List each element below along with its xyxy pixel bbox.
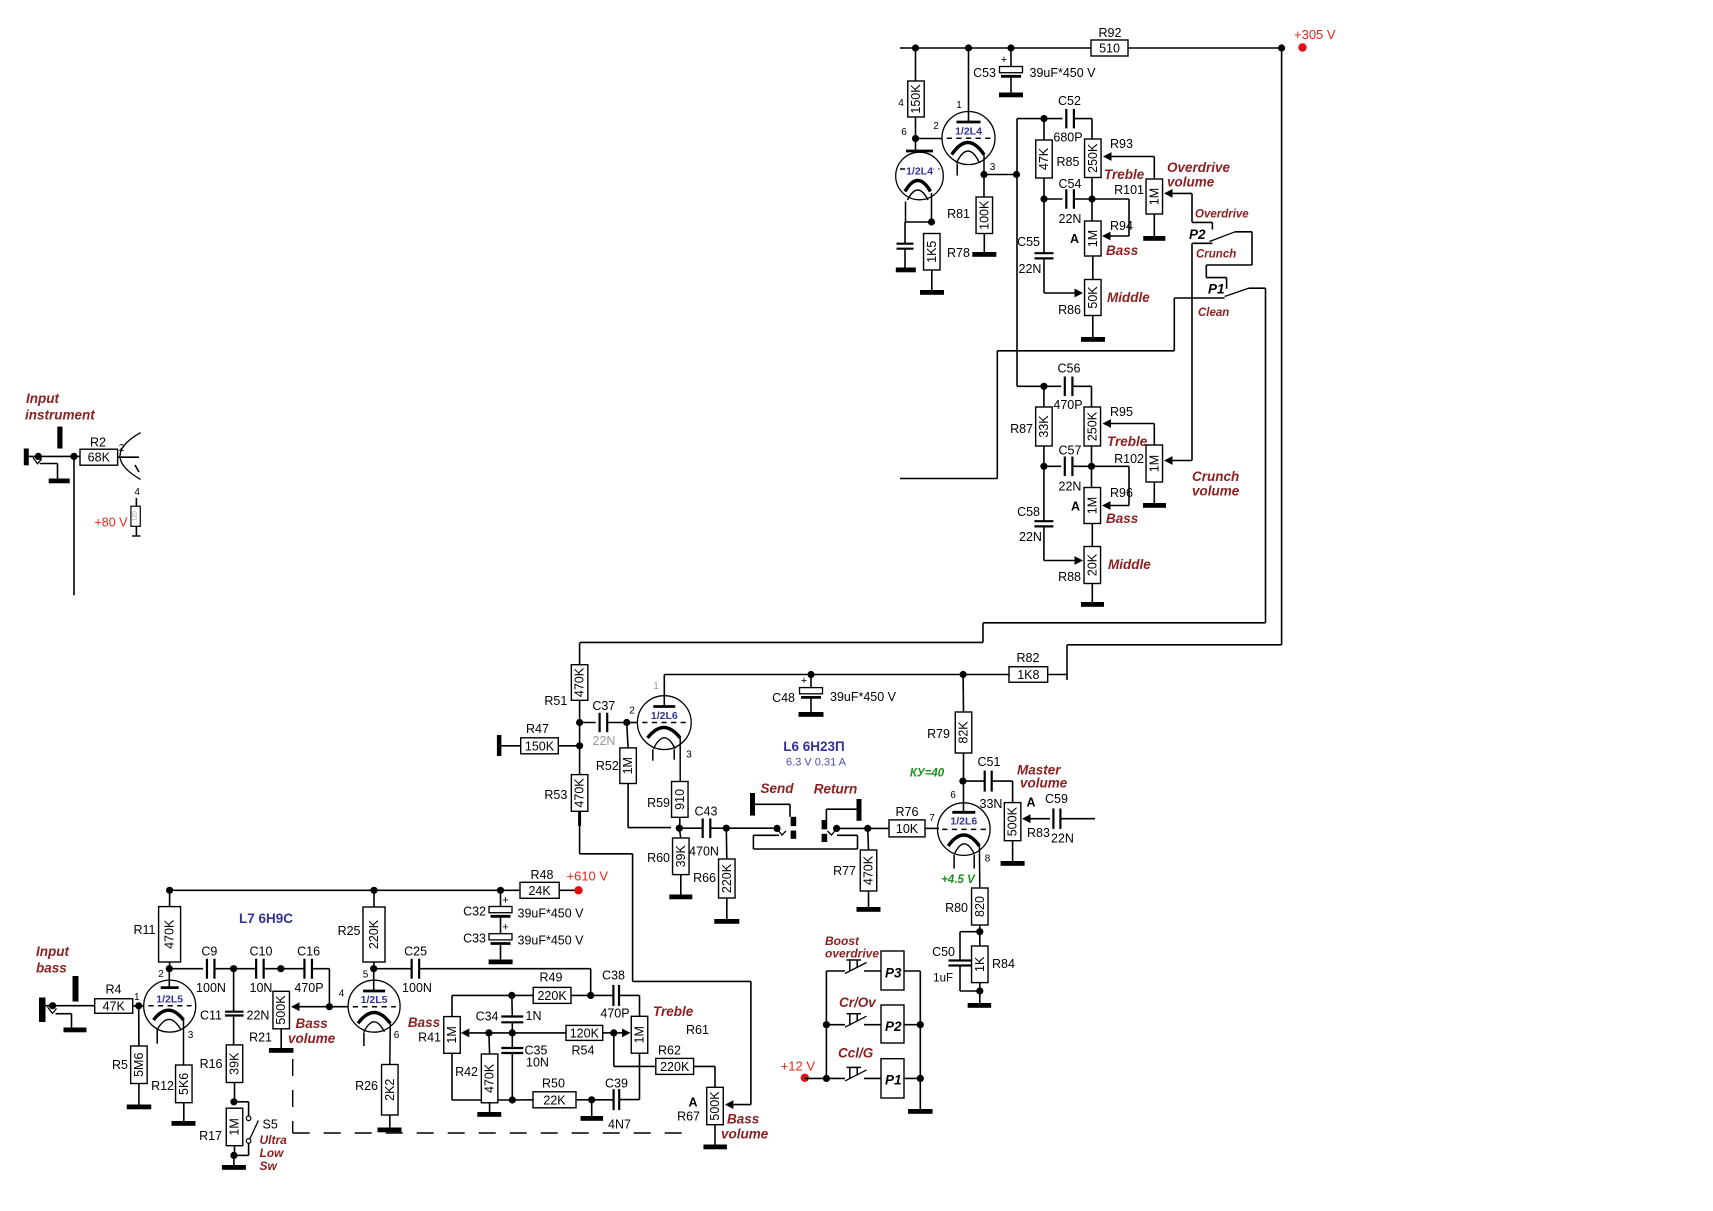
- pin 2: [933, 121, 939, 132]
- wire: [511, 1033, 513, 1048]
- resistor R85: [1036, 140, 1080, 178]
- svg-text:+4.5 V: +4.5 V: [941, 874, 976, 886]
- jack Input bass: [39, 976, 95, 1022]
- wire: [1153, 214, 1155, 236]
- resistor R81: [947, 197, 992, 234]
- wire: [579, 642, 581, 664]
- svg-text:1M: 1M: [445, 1026, 459, 1043]
- svg-text:82K: 82K: [957, 721, 971, 744]
- pin 4: [898, 98, 904, 109]
- resistor R82: [1009, 651, 1048, 682]
- svg-text:22N: 22N: [1059, 480, 1082, 494]
- pot wiper R94: [1102, 232, 1111, 241]
- wire: [558, 745, 579, 747]
- svg-text:C57: C57: [1059, 444, 1082, 458]
- wire: [628, 784, 671, 828]
- svg-text:1/2L4: 1/2L4: [955, 126, 982, 138]
- resistor R25: [338, 907, 385, 962]
- svg-text:A: A: [1071, 500, 1080, 514]
- svg-text:470P: 470P: [294, 981, 323, 995]
- svg-text:Bass: Bass: [408, 1015, 441, 1030]
- svg-text:3: 3: [990, 162, 996, 173]
- resistor R78: [924, 234, 970, 271]
- ground: [972, 252, 996, 257]
- pot wiper R88: [1075, 556, 1084, 565]
- capacitor C11: [200, 1009, 269, 1023]
- label KU=40: [910, 768, 945, 780]
- svg-text:1M: 1M: [1147, 188, 1161, 205]
- svg-text:5: 5: [363, 970, 369, 981]
- net +610V: [567, 869, 609, 895]
- ground: [489, 960, 513, 965]
- wire: [1192, 242, 1212, 244]
- svg-text:Low: Low: [260, 1146, 285, 1160]
- svg-text:volume: volume: [1020, 776, 1068, 791]
- pin 4: [339, 989, 345, 1000]
- wire: [619, 1099, 639, 1101]
- wire: [135, 498, 137, 506]
- svg-text:R4: R4: [106, 983, 122, 997]
- junction: [1007, 44, 1014, 51]
- svg-text:Treble: Treble: [653, 1004, 694, 1019]
- wire: [900, 478, 997, 480]
- svg-text:A: A: [688, 1096, 697, 1110]
- label L7 6H9C: [239, 911, 293, 926]
- pot wiper R102: [1164, 456, 1192, 465]
- svg-text:2: 2: [933, 121, 939, 132]
- svg-text:Bass: Bass: [296, 1016, 329, 1031]
- pin 1: [653, 681, 659, 692]
- junction: [1040, 383, 1047, 390]
- svg-text:R42: R42: [455, 1065, 478, 1079]
- svg-text:39uF*450 V: 39uF*450 V: [518, 934, 585, 948]
- junction: [576, 742, 583, 749]
- wire: [489, 1103, 491, 1112]
- svg-text:1: 1: [134, 992, 140, 1003]
- junction: [166, 965, 173, 972]
- ground: [49, 479, 70, 484]
- wire: [904, 1077, 920, 1079]
- label Overdrive volume: [1167, 160, 1231, 190]
- resistor R95: [1084, 405, 1133, 446]
- svg-text:R67: R67: [677, 1110, 700, 1124]
- ground: [908, 1109, 933, 1114]
- wire: [979, 991, 981, 1003]
- wire: [726, 827, 773, 829]
- svg-text:R62: R62: [658, 1044, 681, 1058]
- ground: [1081, 337, 1105, 342]
- wire: [132, 526, 141, 536]
- pin 2: [629, 706, 635, 717]
- switch P1: [826, 1059, 904, 1098]
- svg-text:500K: 500K: [1006, 806, 1020, 836]
- wire: [960, 966, 980, 991]
- svg-text:+80 V: +80 V: [94, 516, 128, 530]
- svg-text:1M: 1M: [1147, 455, 1161, 472]
- label Crunch: [1196, 249, 1236, 261]
- wire: [576, 1099, 592, 1101]
- wire: [280, 1029, 282, 1048]
- svg-text:R12: R12: [151, 1079, 174, 1093]
- svg-text:C9: C9: [201, 945, 217, 959]
- svg-text:3: 3: [188, 1030, 194, 1041]
- capacitor C53: [973, 54, 1096, 80]
- capacitor C54: [1059, 177, 1082, 226]
- pin 5: [363, 970, 369, 981]
- wire: [963, 753, 965, 781]
- resistor R59: [647, 782, 688, 818]
- junction: [976, 987, 983, 994]
- capacitor C58: [1017, 505, 1053, 544]
- wire: [753, 835, 857, 849]
- wire: [374, 968, 412, 970]
- wire: [500, 944, 502, 960]
- svg-text:R50: R50: [542, 1077, 565, 1091]
- svg-text:6: 6: [394, 1030, 400, 1041]
- capacitor C9: [196, 945, 226, 995]
- wire: [512, 994, 533, 996]
- svg-text:R93: R93: [1110, 137, 1133, 151]
- wire: [264, 968, 281, 970]
- junction: [917, 1021, 924, 1028]
- pin 1: [956, 100, 962, 111]
- junction: [370, 887, 377, 894]
- svg-text:5K6: 5K6: [177, 1073, 191, 1095]
- wire: [607, 722, 626, 724]
- wire: [300, 1006, 330, 1008]
- wire: [118, 456, 139, 458]
- svg-text:C48: C48: [772, 691, 795, 705]
- resistor R84: [972, 946, 1015, 983]
- junction: [864, 825, 871, 832]
- svg-text:C39: C39: [605, 1077, 628, 1091]
- svg-text:R54: R54: [572, 1044, 595, 1058]
- resistor heater: [131, 506, 140, 526]
- junction: [676, 825, 683, 832]
- capacitor C57: [1059, 444, 1082, 494]
- jack Input instrument: [24, 427, 80, 466]
- svg-text:2: 2: [629, 706, 635, 717]
- resistor R77: [833, 850, 877, 891]
- svg-text:68K: 68K: [88, 451, 111, 465]
- wire: [169, 962, 171, 969]
- capacitor C38: [600, 969, 629, 1021]
- svg-text:680P: 680P: [1053, 131, 1082, 145]
- svg-text:2K2: 2K2: [383, 1079, 397, 1101]
- svg-text:150K: 150K: [525, 739, 555, 753]
- svg-text:R59: R59: [647, 796, 670, 810]
- svg-text:P2: P2: [1189, 227, 1206, 242]
- svg-text:4: 4: [898, 98, 904, 109]
- svg-text:P3: P3: [885, 966, 902, 981]
- wire: [825, 971, 827, 1078]
- wire: [904, 1024, 920, 1026]
- junction: [1040, 115, 1047, 122]
- wire: [1043, 178, 1045, 199]
- wire: [1010, 48, 1012, 67]
- svg-text:R5: R5: [112, 1058, 128, 1072]
- junction: [823, 1075, 830, 1082]
- svg-text:bass: bass: [36, 961, 67, 976]
- wire: [979, 925, 981, 932]
- wire: [983, 155, 985, 175]
- ground: [669, 895, 692, 900]
- ground: [1143, 236, 1165, 241]
- svg-text:R88: R88: [1058, 570, 1081, 584]
- svg-text:C55: C55: [1017, 235, 1040, 249]
- svg-text:Overdrive: Overdrive: [1195, 209, 1249, 221]
- junction: [959, 778, 966, 785]
- label Input instrument: [25, 391, 95, 423]
- wire: [234, 968, 257, 970]
- ground: [1001, 861, 1025, 866]
- capacitor C56: [1053, 362, 1082, 413]
- wire: [580, 641, 983, 643]
- label 6.3V: [786, 757, 847, 769]
- svg-text:R92: R92: [1099, 26, 1122, 40]
- wire: [984, 174, 1017, 176]
- switch P1 arm: [1225, 288, 1249, 296]
- label Crunch volume: [1192, 469, 1240, 499]
- wire: [710, 827, 726, 829]
- wire: [1091, 524, 1093, 547]
- wire: [627, 723, 628, 748]
- resistor R49: [533, 971, 571, 1004]
- label Ccl/G: [838, 1046, 874, 1061]
- svg-text:Bass: Bass: [1106, 511, 1139, 526]
- pot wiper R61: [622, 1029, 631, 1038]
- wire: [714, 1125, 716, 1145]
- switch S5: [246, 1116, 278, 1143]
- wire: [679, 817, 681, 828]
- svg-text:volume: volume: [288, 1031, 336, 1046]
- tube V3a 1/2L6: [637, 675, 691, 761]
- ground: [999, 93, 1023, 98]
- svg-text:2: 2: [158, 969, 164, 980]
- svg-text:R79: R79: [927, 727, 950, 741]
- label Bass volume: [721, 1112, 769, 1142]
- resistor R66: [693, 859, 735, 898]
- svg-text:1M: 1M: [1086, 230, 1100, 247]
- wire: [1044, 198, 1063, 200]
- wire: [1206, 232, 1252, 289]
- resistor R51: [544, 665, 587, 708]
- wire: [1128, 47, 1282, 49]
- svg-text:R77: R77: [833, 864, 856, 878]
- label Bass volume: [288, 1016, 336, 1046]
- svg-text:10K: 10K: [896, 822, 919, 836]
- svg-text:1/2L4: 1/2L4: [906, 166, 933, 178]
- capacitor C51: [978, 755, 1003, 811]
- wire: [983, 175, 985, 198]
- junction: [1088, 195, 1095, 202]
- svg-text:C33: C33: [463, 932, 486, 946]
- svg-text:39uF*450 V: 39uF*450 V: [518, 907, 585, 921]
- jack Return: [822, 799, 862, 842]
- label Cr/Ov: [839, 995, 877, 1010]
- switch P2: [826, 1005, 904, 1043]
- label Treble: [1104, 167, 1145, 182]
- capacitor bypass: [897, 244, 914, 249]
- ground: [1143, 503, 1166, 508]
- pin 6: [950, 790, 956, 801]
- label Overdrive: [1195, 209, 1249, 221]
- svg-text:volume: volume: [721, 1127, 769, 1142]
- svg-text:R87: R87: [1010, 422, 1033, 436]
- svg-text:22N: 22N: [1051, 832, 1074, 846]
- wire: [281, 968, 305, 970]
- svg-text:R51: R51: [544, 694, 567, 708]
- resistor R79: [927, 712, 972, 753]
- svg-text:R49: R49: [540, 971, 563, 985]
- svg-text:R82: R82: [1017, 651, 1040, 665]
- wire: [500, 916, 502, 933]
- svg-text:470K: 470K: [573, 778, 587, 808]
- svg-text:R76: R76: [896, 805, 919, 819]
- switch P3: [826, 951, 904, 990]
- capacitor C32: [463, 895, 584, 921]
- svg-text:R25: R25: [338, 924, 361, 938]
- svg-text:5M6: 5M6: [132, 1053, 146, 1077]
- wire: [1016, 119, 1018, 387]
- wire: [512, 1099, 533, 1101]
- svg-text:4N7: 4N7: [608, 1118, 631, 1132]
- svg-text:1: 1: [956, 100, 962, 111]
- ground: [857, 907, 881, 912]
- pot wiper R21: [291, 1002, 300, 1011]
- svg-text:1: 1: [653, 681, 659, 692]
- svg-text:470P: 470P: [600, 1007, 629, 1021]
- wire: [1017, 385, 1061, 387]
- svg-text:P1: P1: [1208, 282, 1225, 297]
- svg-text:250K: 250K: [1086, 143, 1100, 173]
- svg-text:22N: 22N: [1019, 262, 1042, 276]
- wire: [1153, 482, 1155, 503]
- wire: [40, 464, 58, 479]
- label A: [1070, 232, 1079, 246]
- svg-text:Input: Input: [26, 391, 59, 406]
- resistor R5: [112, 1046, 147, 1084]
- junction: [610, 1029, 617, 1036]
- svg-text:Treble: Treble: [1104, 167, 1145, 182]
- resistor R47: [521, 722, 559, 754]
- wire: [373, 890, 375, 907]
- resistor R86: [1058, 280, 1101, 318]
- svg-text:R16: R16: [200, 1057, 223, 1071]
- wire: [233, 969, 235, 1012]
- label Bass: [408, 1015, 441, 1030]
- label A: [1026, 796, 1035, 810]
- resistor R16: [200, 1045, 243, 1083]
- resistor R60: [647, 838, 689, 875]
- wire: [579, 723, 581, 775]
- svg-text:A: A: [1070, 232, 1079, 246]
- wire: [1067, 644, 1282, 646]
- label Middle: [1107, 290, 1150, 305]
- svg-text:+610 V: +610 V: [567, 869, 609, 884]
- ground: [127, 1105, 152, 1110]
- svg-text:R86: R86: [1058, 303, 1081, 317]
- ground: [269, 1048, 294, 1053]
- svg-text:КУ=40: КУ=40: [910, 768, 945, 780]
- wire: [983, 234, 985, 253]
- junction: [497, 887, 504, 894]
- wire: [963, 780, 985, 782]
- junction: [807, 671, 814, 678]
- svg-text:500K: 500K: [708, 1091, 722, 1121]
- wire: [169, 890, 171, 906]
- svg-text:C53: C53: [973, 66, 996, 80]
- resistor R62: [656, 1044, 694, 1075]
- wire: [805, 1077, 827, 1079]
- junction: [823, 1021, 830, 1028]
- wire: [591, 1100, 593, 1116]
- resistor R48: [520, 868, 559, 898]
- svg-text:C52: C52: [1058, 94, 1081, 108]
- svg-text:+12 V: +12 V: [781, 1059, 816, 1074]
- pot wiper R93: [1103, 152, 1154, 179]
- junction: [1013, 171, 1020, 178]
- pot wiper R95: [1103, 419, 1155, 445]
- svg-text:1/2L5: 1/2L5: [156, 994, 183, 1006]
- ground: [1081, 602, 1104, 607]
- label Return: [814, 782, 858, 797]
- wire: [614, 1032, 623, 1034]
- resistor R26: [355, 1065, 398, 1116]
- svg-text:C54: C54: [1059, 177, 1082, 191]
- resistor R102: [1114, 445, 1162, 482]
- capacitor C52: [1053, 94, 1082, 145]
- wire: [234, 1102, 249, 1116]
- resistor R88: [1058, 547, 1100, 585]
- pot wiper R86: [1075, 289, 1084, 298]
- svg-text:Treble: Treble: [1107, 434, 1148, 449]
- wire: [904, 249, 906, 267]
- ground: [581, 1116, 604, 1121]
- svg-text:220K: 220K: [660, 1060, 690, 1074]
- svg-text:R94: R94: [1110, 219, 1133, 233]
- svg-text:39uF*450 V: 39uF*450 V: [830, 690, 897, 704]
- capacitor C35: [501, 1044, 549, 1070]
- label P2: [1189, 227, 1206, 242]
- net +12V: [781, 1059, 816, 1083]
- resistor R4: [95, 983, 133, 1014]
- svg-text:1M: 1M: [621, 757, 635, 774]
- label Middle: [1108, 557, 1151, 572]
- wire: [1043, 119, 1045, 140]
- svg-text:Return: Return: [814, 782, 858, 797]
- junction: [370, 965, 377, 972]
- svg-text:1K5: 1K5: [925, 241, 939, 263]
- svg-text:R48: R48: [531, 868, 554, 882]
- junction: [980, 171, 987, 178]
- wire: [500, 890, 502, 906]
- wire: [183, 1020, 185, 1065]
- wire: [233, 1016, 235, 1045]
- wire: [1072, 465, 1091, 467]
- junction: [912, 44, 919, 51]
- junction: [508, 992, 515, 999]
- svg-text:R101: R101: [1114, 183, 1144, 197]
- svg-text:1K8: 1K8: [1017, 668, 1039, 682]
- wire: [73, 456, 75, 595]
- wire: [603, 1032, 614, 1034]
- wire: [1044, 259, 1075, 293]
- svg-text:220K: 220K: [720, 863, 734, 893]
- wire: [1044, 465, 1061, 467]
- wire: [931, 270, 933, 290]
- svg-text:Input: Input: [36, 944, 69, 959]
